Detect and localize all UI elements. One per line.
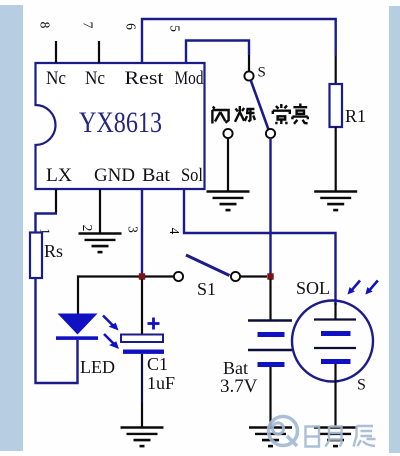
SOL internal top lead [334,303,336,320]
svg-text:Nc: Nc [85,68,105,89]
wire S1 right contact to junction node B [241,275,268,277]
switch S1 lever [186,255,230,276]
wire steady contact down to junction node B [269,138,271,277]
wire pin6 to R1 top [142,19,336,63]
ground (R1) [314,192,357,211]
ground (GND pin2) [79,234,122,253]
wire junction A to LED anode [78,277,142,315]
svg-text:Sol: Sol [181,165,203,186]
LED emission arrow 2 [104,334,119,349]
wire pin5 to switch S [186,41,249,64]
switch S1 right contact [231,272,240,281]
switch S1 left contact [174,272,183,281]
svg-text:YX8613: YX8613 [79,106,162,139]
label 常亮 (steady-on mode) [273,104,308,125]
svg-text:7: 7 [80,22,95,29]
resistor Rs [30,233,42,279]
svg-text:Mod: Mod [175,68,204,89]
svg-text:SOL: SOL [296,278,330,298]
battery Bat top lead [269,279,271,321]
svg-text:GND: GND [94,165,135,186]
label + (C1 polarity) [148,318,160,330]
LED diode body [56,314,98,340]
svg-text:LED: LED [80,357,115,377]
wire pin4 Sol down, across and down to SOL cell [184,189,336,305]
wire junction A to S1 left contact [145,275,174,277]
ground (Bat) [249,428,292,447]
capacitor C1 plates [121,335,164,354]
label 闪烁 (flash mode) [212,106,255,124]
wire pin1 to Rs [36,214,58,234]
pin 2 stub to ground [99,189,101,234]
pin 7 stub [98,41,100,63]
svg-text:Rest: Rest [125,68,165,89]
wire pin3 Bat down to junction node A [141,189,143,277]
wire flash contact to ground [227,138,229,192]
LED emission arrow 1 [103,316,119,331]
switch S pole contact [244,71,253,80]
SOL plates [314,320,356,365]
R1 bottom lead [335,127,337,192]
svg-text:Nc: Nc [46,68,66,89]
svg-text:4: 4 [167,228,182,235]
battery bottom lead [269,367,271,428]
battery Bat plates [248,321,292,368]
light arrow 2 (into SOL) [365,281,378,295]
contact 常亮 (steady) [266,129,275,138]
svg-text:S1: S1 [197,279,216,299]
ground (C1) [121,428,164,447]
svg-text:6: 6 [123,23,138,30]
contact 闪烁 (flash) [223,129,232,138]
svg-text:3.7V: 3.7V [220,376,258,397]
solar cell SOL circle [292,301,373,382]
junction node A [139,273,145,279]
svg-text:Bat: Bat [223,358,248,378]
SOL bottom lead to ground [334,382,336,428]
junction node B [267,273,273,279]
switch S top lead [248,55,250,72]
SOL internal bottom lead [334,364,336,382]
wire Rs bottom to LED cathode [36,278,78,383]
svg-text:Rs: Rs [44,241,63,261]
svg-text:C1: C1 [147,354,168,374]
watermark 日月辰 [306,426,376,447]
svg-text:Bat: Bat [142,165,171,186]
svg-text:8: 8 [37,22,52,29]
ground (SOL) [314,428,357,447]
watermark logo ring [269,417,298,447]
switch S lever [251,81,269,130]
svg-text:S: S [258,65,266,81]
C1 bottom lead [141,354,143,403]
svg-text:3: 3 [125,226,140,233]
svg-text:S: S [357,377,366,394]
svg-text:LX: LX [46,165,72,186]
light arrow 1 (into SOL) [348,281,361,295]
resistor R1 [330,84,343,127]
svg-text:1uF: 1uF [147,373,175,393]
capacitor C1 top lead [141,279,143,334]
svg-text:2: 2 [80,225,95,232]
R1 top lead [335,56,337,84]
IC U1 YX8613 body [36,63,205,189]
pin 1 stub [55,189,57,213]
ground (flash contact) [207,192,250,211]
pin 8 stub [55,41,57,63]
svg-text:5: 5 [167,25,182,32]
svg-text:R1: R1 [345,106,366,126]
